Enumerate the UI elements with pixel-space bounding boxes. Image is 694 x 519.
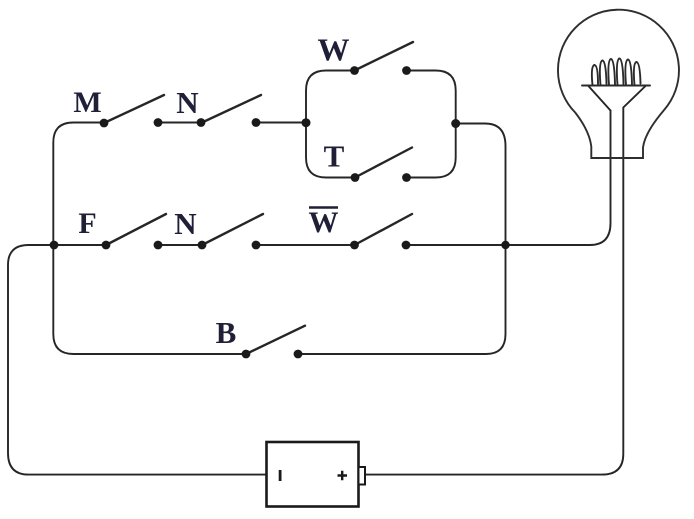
svg-text:B: B (216, 315, 237, 350)
terminal dot: N top pivot (197, 118, 206, 127)
switch B blade (246, 326, 305, 354)
battery plus mark (338, 471, 348, 481)
terminal dot: Wbar pivot (350, 241, 359, 250)
label Wbar overline (309, 206, 338, 209)
svg-text:W: W (318, 32, 350, 68)
terminal dot: F pivot (102, 241, 111, 250)
junction dot: node B2 (right riser / middle row) (501, 241, 509, 249)
terminal dot: W contact (402, 66, 411, 75)
svg-text:N: N (174, 206, 196, 241)
wire: Wbar contact through junction B2 to bulb left stem (406, 111, 611, 246)
switch M blade (104, 95, 164, 123)
node dot: W/T output node (451, 119, 460, 128)
wire: node A to F pivot (54, 244, 106, 246)
terminal dot: N middle contact (252, 241, 261, 250)
wire: top row from M pivot, left trunk down to B row left (53, 123, 246, 355)
wire: top row N contact to W/T input node (256, 122, 306, 124)
terminal dot: B contact (294, 350, 303, 359)
switch F blade (106, 214, 166, 245)
terminal dot: M contact (154, 118, 163, 127)
junction dot: node A (left trunk / F row) (50, 241, 59, 250)
terminal dot: B pivot (242, 350, 251, 359)
battery minus mark (279, 470, 282, 481)
battery body (267, 442, 359, 507)
switch T blade (355, 148, 412, 178)
switch Wbar blade (355, 214, 413, 245)
wire: B contact to right riser up to W/T output node (298, 124, 506, 355)
wire: outer left loop from node A to battery minus (8, 245, 267, 475)
node dot: W/T input node (302, 118, 311, 127)
lamp filament support bar (582, 59, 650, 86)
svg-text:W: W (309, 206, 339, 239)
lamp glass envelope (558, 10, 679, 158)
svg-text:F: F (78, 207, 96, 240)
terminal dot: W pivot (350, 66, 359, 75)
wire: battery plus to bulb right stem (366, 159, 624, 475)
wire: N contact to Wbar pivot (256, 244, 355, 246)
switch N (middle) blade (202, 214, 263, 245)
wire: top row M contact to N pivot (158, 122, 201, 124)
wire: bulb left stem top to filament support (588, 86, 611, 111)
svg-text:N: N (176, 85, 198, 120)
terminal dot: N top contact (252, 118, 261, 127)
terminal dot: Wbar contact (402, 241, 411, 250)
switch N (top) blade (201, 95, 261, 123)
wire: W/T parallel branch ring (306, 71, 456, 178)
wire: bulb right stem inside bulb (623, 86, 646, 159)
terminal dot: T pivot (351, 173, 360, 182)
battery positive nub terminal (359, 467, 366, 485)
terminal dot: N middle pivot (198, 241, 207, 250)
terminal dot: F contact (154, 241, 163, 250)
svg-text:T: T (324, 139, 345, 174)
terminal dot: M pivot (100, 119, 109, 128)
terminal dot: T contact (402, 173, 411, 182)
wire: F contact to N pivot (middle row) (158, 244, 202, 246)
switch W blade (355, 42, 414, 71)
lamp filament coil (592, 59, 641, 86)
svg-text:M: M (73, 86, 101, 119)
